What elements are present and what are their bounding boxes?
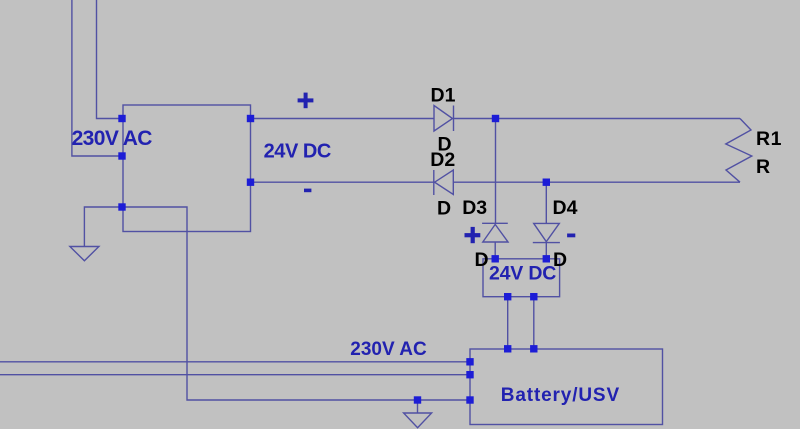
svg-text:R1: R1: [756, 128, 782, 150]
diode D1: [434, 106, 453, 132]
junction node AC input L: [118, 115, 125, 122]
svg-text:230V AC: 230V AC: [350, 339, 427, 360]
wire mains L from top: [72, 0, 122, 156]
svg-text:D: D: [475, 249, 489, 271]
svg-text:24V DC: 24V DC: [264, 141, 331, 163]
power supply box U1: [123, 105, 251, 232]
wire 24V DC + to D1 anode: [251, 118, 435, 120]
svg-text:D1: D1: [431, 85, 456, 107]
rectifier output box: [483, 259, 560, 297]
wire battery ground node down: [417, 400, 419, 413]
battery box: [470, 349, 663, 425]
wire box to battery 2: [533, 297, 535, 349]
junction node rectifier box top left: [492, 255, 499, 262]
junction node ground tap: [414, 396, 421, 403]
junction node battery top right: [530, 345, 537, 352]
junction node 24V DC - output: [247, 179, 254, 186]
junction node battery AC L: [466, 358, 473, 365]
wire node to D4 anode: [545, 182, 547, 223]
junction node battery AC N: [466, 371, 473, 378]
diode D4: [534, 223, 560, 241]
junction node battery PE: [466, 396, 473, 403]
wire box to battery 1: [507, 297, 509, 349]
svg-text:R: R: [756, 156, 770, 178]
svg-text:24V DC: 24V DC: [489, 262, 556, 284]
junction node 24V DC + output: [247, 115, 254, 122]
junction node D1 cathode: [492, 115, 499, 122]
junction node rectifier box bottom left: [504, 293, 511, 300]
junction node AC input N: [118, 152, 125, 159]
junction node PE/ground tap: [118, 203, 125, 210]
resistor R1: [726, 119, 752, 183]
junction node rectifier box bottom right: [530, 293, 537, 300]
svg-text:D3: D3: [462, 197, 487, 219]
wire 24V DC - to D2: [251, 181, 434, 183]
junction node rectifier box top right: [543, 255, 550, 262]
diode D2: [435, 170, 454, 195]
wire mains N from top: [97, 0, 123, 119]
svg-text:D2: D2: [430, 149, 455, 171]
wire to ground from node (122,207): [84, 207, 122, 247]
svg-text:D: D: [437, 198, 451, 220]
junction node D4 tap: [543, 179, 550, 186]
label -: [567, 234, 575, 238]
diode D3: [482, 222, 508, 224]
wire node to D3 cathode: [495, 119, 497, 224]
svg-text:D4: D4: [553, 197, 578, 219]
svg-text:Battery/USV: Battery/USV: [501, 385, 620, 406]
label -: [304, 189, 311, 193]
wire D2 anode to resistor: [453, 181, 740, 183]
label +: [298, 93, 314, 109]
ground: [70, 247, 99, 261]
wire from node (122,207) to battery AC input: [122, 207, 470, 400]
svg-text:230V AC: 230V AC: [72, 127, 153, 150]
ground: [404, 413, 432, 428]
label +: [465, 227, 481, 243]
wire AC line 2 to battery: [0, 374, 470, 376]
junction node battery top left: [504, 345, 511, 352]
wire D1 cathode to node: [454, 118, 741, 120]
wire AC line 1 to battery: [0, 361, 470, 363]
